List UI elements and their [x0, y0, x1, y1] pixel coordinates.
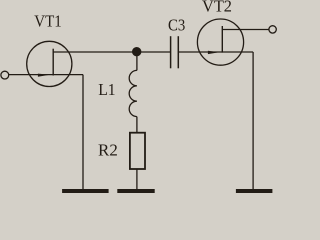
transistor VT2 base bar: [221, 26, 223, 53]
wire: R2 bottom lead: [136, 169, 138, 190]
transistor VT2 circle: [197, 19, 243, 65]
wire: capacitor to VT2 emitter: [178, 51, 253, 53]
wire: L1 top lead: [136, 52, 138, 70]
svg-text:L1: L1: [98, 80, 115, 99]
transistor VT1 circle: [27, 41, 72, 86]
inductor L1 coils: [129, 70, 137, 116]
transistor VT2 emitter arrow: [208, 51, 219, 54]
svg-text:VT1: VT1: [34, 11, 62, 30]
capacitor C3 left plate: [170, 36, 172, 68]
transistor VT1 emitter arrow: [38, 74, 50, 77]
ground bar right: [236, 189, 273, 193]
node junction dot: [132, 47, 141, 56]
input terminal circle: [1, 71, 9, 79]
wire: right vertical down to ground: [252, 52, 254, 190]
svg-text:VT2: VT2: [202, 0, 232, 16]
capacitor C3 right plate: [177, 36, 179, 68]
transistor VT1 base bar: [52, 49, 54, 76]
ground bar left: [62, 189, 109, 193]
resistor R2: [130, 133, 145, 169]
ground bar middle: [117, 189, 154, 193]
wire: left vertical down to ground: [82, 75, 84, 190]
output terminal circle: [269, 26, 276, 33]
wire: L1 bottom lead: [136, 117, 138, 133]
svg-text:C3: C3: [168, 15, 185, 34]
wire: VT1 collector to capacitor: [53, 51, 171, 53]
svg-text:R2: R2: [98, 140, 118, 159]
wire: input to VT1 emitter through circle to corner: [8, 74, 83, 76]
wire: VT2 collector to output: [222, 29, 269, 31]
